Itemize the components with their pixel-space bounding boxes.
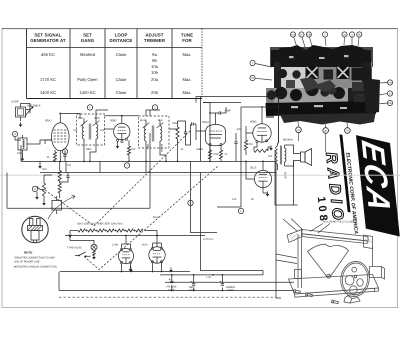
rear view leader lines (310, 224, 330, 234)
svg-text:SEE TABLE: SEE TABLE (27, 105, 41, 108)
svg-text:ADJUST: ADJUST (145, 33, 163, 38)
svg-text:GANG: GANG (81, 38, 95, 43)
wire secondary bus (40, 172, 276, 174)
IF transformer T2 dashed can (139, 116, 170, 148)
rear view dial board rail (302, 230, 369, 242)
wire screen riser (275, 150, 298, 205)
svg-text:DISTANCE: DISTANCE (110, 38, 133, 43)
wire AVC bus (21, 160, 276, 162)
wire T1 bottom leads (84, 145, 96, 162)
wire to rear view upper (276, 254, 297, 258)
chassis arrows bottom (129, 270, 133, 273)
node A circle (12, 131, 17, 136)
svg-text:Max.: Max. (182, 52, 191, 57)
wire T1 secondary to V2 grid (96, 110, 114, 129)
tube V3 6SQ7 detector first audio (206, 125, 226, 146)
svg-text:.02: .02 (224, 153, 228, 156)
photo callout 1 (322, 32, 327, 46)
resistor R10 V4 cathode (254, 149, 268, 152)
rear view base screw 2 (305, 293, 312, 297)
svg-text:220: 220 (67, 164, 72, 167)
volume control R13 with switch (42, 183, 45, 196)
svg-text:10b: 10b (151, 70, 159, 75)
ground V6 (129, 269, 133, 272)
svg-text:LOOP: LOOP (11, 100, 19, 104)
svg-text:BROWN: BROWN (283, 139, 293, 142)
V6 bottom pins (120, 261, 122, 263)
svg-text:1.2A: 1.2A (206, 276, 211, 279)
V7 top pins (151, 247, 153, 249)
T2 secondary winding (160, 126, 162, 141)
resistor R7 volume feed (219, 150, 222, 159)
svg-text:TRIMMER: TRIMMER (144, 38, 166, 43)
chassis rear view drawing (276, 219, 385, 304)
resistor R1 V1 cathode (53, 152, 56, 161)
rear view speaker hole left (345, 276, 354, 286)
wire T2 bottom leads (146, 148, 166, 161)
dashed link volume to tuning (45, 131, 190, 226)
rear view speaker frame (338, 260, 371, 299)
T2 primary winding (144, 126, 146, 141)
speaker SP1 (301, 152, 306, 162)
svg-text:ADJ. GANG FULLY CLOSED: ADJ. GANG FULLY CLOSED (323, 221, 356, 224)
svg-text:Close: Close (116, 77, 127, 82)
wire vertical x190 (191, 161, 218, 232)
photo right terminal strip (363, 78, 380, 114)
photo trimmer block A (306, 66, 319, 79)
photo dark patches mid (300, 77, 336, 92)
svg-text:117V.A.C.: 117V.A.C. (203, 238, 214, 241)
ground below loop (19, 125, 23, 128)
photo callout 10 (299, 32, 305, 47)
svg-text:1400 KC: 1400 KC (40, 90, 56, 95)
schematic callout 5 (188, 200, 193, 205)
T2 core (152, 126, 154, 142)
schematic callout 3 (152, 105, 157, 110)
resistor R6 V3 cathode (208, 150, 211, 159)
photo chassis front apron (266, 101, 377, 116)
wire vertical x241 (217, 107, 241, 207)
photo tube 4 (320, 87, 329, 96)
wire OT secondary to speaker (285, 145, 301, 166)
V7 bottom pins (151, 261, 153, 263)
wire heater bus (65, 235, 205, 237)
resistor R8 grid leak (244, 140, 247, 150)
svg-text:Close: Close (116, 52, 127, 57)
wire screen feed (203, 102, 241, 104)
svg-text:10a: 10a (291, 34, 296, 37)
photo gang condenser block (352, 68, 372, 81)
resistor R11 AVC (58, 171, 61, 182)
photo tube 1 (275, 87, 287, 99)
svg-text:50L6: 50L6 (142, 244, 148, 247)
wire plate bus over V2 (60, 114, 122, 116)
tube V1 6SA7 converter (52, 123, 70, 151)
resistor R14 pilot (93, 251, 96, 256)
tube V5 35Z5 rectifier (254, 170, 271, 187)
wire bus corner x200 (201, 97, 264, 275)
svg-text:Max.: Max. (182, 90, 191, 95)
wire switch to string (70, 237, 94, 251)
wire long vertical from detector (149, 110, 151, 208)
photo callout ab bottom (323, 122, 329, 133)
wire V2 plate (122, 116, 139, 124)
photo callout 20 left (250, 75, 272, 80)
rear view right bracket (370, 267, 385, 280)
ground volume (42, 203, 46, 206)
resistor R3 V2 screen (127, 146, 130, 155)
svg-text:9a: 9a (152, 52, 157, 57)
wire lower dotted rail (59, 296, 276, 298)
svg-text:150: 150 (268, 155, 273, 158)
power line arrow (68, 234, 71, 238)
photo tube 5 (333, 87, 345, 99)
schematic callout 7 (124, 163, 129, 168)
photo mid blob (328, 86, 336, 94)
capacitor C10 (66, 176, 69, 178)
pilot lamp PL1 (91, 244, 97, 250)
rear view panel hatching (289, 232, 300, 241)
gang tuning capacitor C1A trimmer arrow (25, 107, 33, 117)
wire stub from callout 7a (298, 133, 300, 141)
rear view speaker center (354, 275, 356, 277)
wire oscillator to V1 (23, 135, 52, 157)
chassis photograph (top view, halftone) (250, 32, 393, 152)
capacitor C9 coupling (235, 133, 237, 142)
svg-text:NOTE: NOTE (24, 251, 32, 255)
photo callout 10b (306, 32, 312, 46)
photo callout 9b (357, 32, 362, 46)
svg-text:GRN: GRN (94, 117, 100, 120)
photo chassis lower edge (280, 113, 376, 125)
power switch SW1 (75, 252, 91, 256)
schematic callout 2 (87, 105, 92, 110)
svg-text:6SQ7: 6SQ7 (202, 120, 210, 124)
schematic callout 8 (32, 186, 37, 191)
svg-text:10b: 10b (100, 129, 105, 132)
svg-text:TUNE: TUNE (181, 33, 193, 38)
photo callout 20b right (377, 100, 393, 105)
tube V2 6SB7 IF amplifier (114, 123, 130, 139)
photo tube 3 (305, 83, 318, 96)
rear view base plate (289, 275, 379, 295)
photo callout 20a right (379, 80, 393, 85)
output transformer T3 (276, 146, 278, 164)
T1 core (89, 124, 91, 140)
ground V5 (266, 194, 270, 197)
scan artifact line (0, 174, 400, 176)
svg-text:SET SIGNAL: SET SIGNAL (34, 33, 62, 38)
resistor R4 diode load (176, 127, 179, 139)
svg-text:TYPE AC/DC: TYPE AC/DC (67, 247, 82, 250)
ground pilot (92, 257, 96, 260)
resistor R12 AVC 2 (58, 183, 61, 193)
svg-text:1400 KC: 1400 KC (79, 90, 95, 95)
curved arrow to socket detail (48, 196, 75, 219)
svg-text:470K: 470K (213, 153, 219, 156)
rear view left end bracket (287, 230, 302, 243)
T1 trimmer arrows (81, 121, 100, 127)
logo rule bar (340, 134, 351, 212)
svg-text:20b: 20b (388, 102, 393, 105)
svg-text:.05: .05 (46, 156, 50, 159)
V6 top pins (120, 248, 122, 250)
svg-text:*DENOTES CONNECTION TO ONE: *DENOTES CONNECTION TO ONE (14, 257, 55, 260)
rear view speaker magnet hole (352, 267, 357, 272)
electrolytic C20A YELLOW (171, 275, 173, 281)
svg-text:AVC: AVC (42, 168, 47, 171)
photo left post (274, 62, 281, 88)
rear view left post box (295, 270, 302, 279)
svg-text:20b: 20b (151, 90, 159, 95)
wire B- bus (160, 274, 263, 276)
socket detail circle (22, 216, 48, 242)
photo electrolytic can (278, 69, 287, 78)
wire V1 grid stub (45, 140, 52, 144)
V4 pins (256, 140, 258, 142)
wire V4 grid (246, 126, 253, 140)
rear view right vertical (373, 246, 375, 293)
ground below oscillator coil (21, 159, 25, 162)
wire V3 plate riser (210, 103, 216, 162)
wire bus bridges (66, 161, 146, 172)
wire bottom tube bus (60, 271, 190, 273)
T2 trimmer arrows (143, 123, 164, 129)
photo chassis top backing (271, 50, 371, 67)
rear view speaker hole bottom (350, 286, 358, 294)
capacitor C2 V1 cathode bypass (63, 155, 66, 157)
svg-text:1MEG: 1MEG (196, 148, 203, 151)
IF transformer T1 dashed can (77, 114, 105, 145)
photo right post (362, 62, 371, 88)
svg-text:10b: 10b (307, 34, 312, 37)
tube V6 12H6 (118, 248, 133, 263)
svg-text:BLUE: BLUE (284, 172, 287, 179)
ground volume low end (35, 197, 39, 200)
T1 secondary winding (96, 124, 98, 139)
svg-text:.005: .005 (236, 128, 241, 131)
svg-text:.01: .01 (180, 148, 184, 151)
wire V4 plate to OT (241, 107, 271, 124)
ground V4 cathode (269, 148, 273, 151)
svg-text:LOOP: LOOP (115, 33, 128, 38)
svg-text:12H6: 12H6 (112, 244, 119, 247)
svg-text:455 KC: 455 KC (41, 52, 55, 57)
tube V7 50L6 (149, 247, 165, 263)
svg-text:♥DENOTES CHASSIS CONNECTION: ♥DENOTES CHASSIS CONNECTION (14, 266, 57, 269)
svg-text:47K: 47K (131, 148, 136, 151)
wire V1 cathode (55, 150, 60, 161)
schematic callout 6 (238, 208, 243, 213)
rear view dial fan (308, 244, 349, 276)
wire B+ from rectifier to OT (271, 97, 279, 144)
svg-text:RED: RED (78, 117, 83, 120)
ground AVC network (38, 166, 42, 169)
photo chassis top dark band (275, 45, 370, 67)
rear view fan hub (327, 274, 331, 278)
photo coil blob (324, 70, 334, 80)
photo highlight specks (289, 55, 349, 109)
photo right lower blob (354, 94, 369, 102)
photo callout 9 (349, 32, 354, 45)
wire V1 top cap to T1 (60, 114, 80, 123)
rear view right end bracket (364, 235, 373, 249)
svg-text:SET: SET (83, 33, 92, 38)
svg-text:Close: Close (116, 90, 127, 95)
rear view speaker foot (344, 296, 360, 304)
wire stub from callout ab (325, 133, 327, 152)
photo callout 7a bottom (296, 121, 302, 133)
photo callout 10a (290, 32, 297, 47)
capacitor C6 (184, 132, 187, 134)
wire V3 grid (196, 124, 206, 140)
interlock plug P1 (28, 226, 43, 231)
svg-text:GENERATOR AT: GENERATOR AT (30, 38, 66, 43)
wire bottom rail (59, 290, 293, 292)
wire filter bus (165, 281, 294, 283)
ground V2 cathode (116, 146, 120, 149)
rear view top-left leader lines (283, 219, 303, 232)
oscillator coil L2 (18, 138, 27, 150)
photo trimmer block B (337, 66, 350, 79)
rear view speaker hole right (357, 279, 363, 287)
svg-text:BLK: BLK (158, 119, 163, 122)
svg-text:1720 KC: 1720 KC (40, 77, 56, 82)
wire detector net (169, 121, 191, 161)
photo far-left tube (267, 90, 277, 100)
T1 primary winding (82, 124, 84, 139)
wire right rail (276, 161, 281, 298)
svg-text:9b: 9b (152, 58, 157, 63)
svg-text:250K: 250K (172, 122, 178, 125)
wire top audio run (196, 97, 279, 144)
capacitor C11 box (52, 201, 62, 211)
resistor string heaters (78, 229, 85, 232)
wire to rear view lower (276, 260, 297, 264)
photo callout 7b bottom (345, 122, 351, 133)
rear view base screw 3 (331, 300, 338, 304)
svg-text:Meshed: Meshed (80, 52, 96, 57)
svg-text:6SB7: 6SB7 (110, 119, 117, 123)
wire T2 top lead (146, 110, 160, 116)
dashed link switch (84, 166, 218, 270)
svg-text:20a: 20a (151, 77, 159, 82)
V2 pins (116, 139, 118, 141)
svg-text:20a: 20a (388, 82, 393, 85)
svg-text:10a: 10a (151, 64, 159, 69)
svg-text:470K: 470K (247, 143, 253, 146)
photo callout 2 left (250, 60, 272, 67)
svg-text:12K: 12K (232, 198, 237, 201)
wire loop to converter grid (21, 104, 31, 122)
rear view left post (298, 234, 302, 288)
svg-text:Fully Open: Fully Open (77, 77, 98, 82)
loop antenna L1 (16, 107, 26, 117)
svg-text:Max.: Max. (182, 77, 191, 82)
photo speaker blob (348, 88, 370, 102)
svg-text:LEG OF POWER LINE: LEG OF POWER LINE (14, 261, 40, 264)
svg-text:BLACK: BLACK (160, 144, 163, 153)
electrolytic C20C GREEN (221, 275, 223, 284)
V3 pins (209, 143, 211, 145)
electrolytic C20B RED (193, 275, 195, 284)
wire mid bus (7, 173, 150, 209)
photo oscillator can (292, 70, 300, 78)
alignment table (27, 29, 203, 99)
ECA logo (308, 129, 399, 245)
svg-text:35Z5: 35Z5 (250, 166, 257, 170)
svg-text:6SA7: 6SA7 (45, 119, 52, 123)
svg-text:.05MF: .05MF (224, 110, 232, 113)
svg-text:FOR: FOR (182, 38, 192, 43)
photo callout 40 right (378, 91, 393, 96)
photo tube 2 (290, 89, 302, 101)
logo ECA band (356, 135, 400, 236)
svg-text:10a: 10a (73, 129, 78, 132)
svg-text:RED: RED (86, 148, 91, 151)
photo halftone underlay (270, 47, 373, 67)
photo callout 9a (342, 32, 347, 45)
wire V5 leads (246, 161, 263, 193)
svg-text:6SA7 6SB7 6SQ7 50B5 35Z5: 6SA7 6SB7 6SQ7 50B5 35Z5 12H6 50L6 (77, 223, 123, 226)
svg-text:50L6: 50L6 (153, 216, 159, 219)
tube V4 50B5 output (253, 124, 271, 142)
svg-text:50B5: 50B5 (250, 120, 257, 124)
capacitor C7 coupling to V3 (192, 122, 194, 125)
schematic callout 4 (62, 149, 67, 154)
wire left rail (15, 137, 21, 162)
rear view base screw 1 (293, 290, 300, 294)
